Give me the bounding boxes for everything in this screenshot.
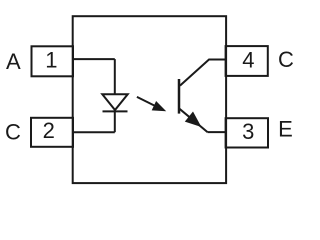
svg-text:C: C (5, 119, 21, 144)
wire LED anode vertical (114, 59, 116, 94)
svg-text:A: A (6, 49, 21, 74)
package outline U1 (73, 16, 226, 183)
wire pin2 to LED cathode (73, 131, 115, 133)
svg-text:3: 3 (242, 119, 254, 144)
svg-text:1: 1 (45, 47, 57, 72)
svg-text:4: 4 (242, 48, 254, 73)
phototransistor base bar (178, 79, 181, 114)
svg-text:C: C (278, 47, 294, 72)
emitter arrow head (185, 112, 202, 128)
emitter diagonal (180, 109, 208, 132)
pin 1 box (32, 46, 74, 76)
svg-text:2: 2 (43, 118, 55, 143)
wire LED cathode vertical (114, 110, 116, 132)
emitter wire to pin 3 (208, 131, 227, 133)
light arrow head (152, 101, 167, 111)
LED cathode bar (103, 110, 128, 112)
pin 2 box (31, 118, 73, 147)
light arrow shaft (137, 97, 155, 106)
wire pin1 to LED anode (73, 58, 115, 60)
pin 3 box (226, 118, 268, 147)
pin 4 box (226, 46, 268, 76)
LED diode triangle (102, 94, 127, 110)
svg-text:E: E (278, 117, 293, 142)
collector wire to pin 4 (180, 60, 227, 86)
